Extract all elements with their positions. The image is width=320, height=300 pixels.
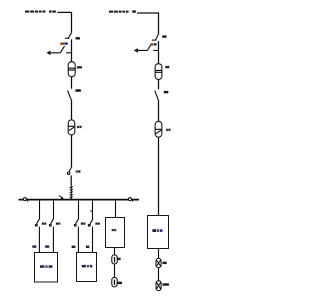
wire xyxy=(71,77,73,89)
capsule inner bar xyxy=(68,125,74,127)
label QL1 xyxy=(76,170,81,172)
label FU2 xyxy=(165,66,169,68)
label QS1 xyxy=(76,37,80,39)
wire xyxy=(114,248,116,255)
label (drop2 switch) xyxy=(56,223,60,225)
fuse F2 element bar xyxy=(114,280,116,286)
capsule inner bar (right) xyxy=(155,128,162,130)
arrester X2 cross xyxy=(157,282,161,288)
wire xyxy=(39,200,41,219)
label: right 10kV xyxy=(132,10,136,13)
ground symbol (right) arrow + bar xyxy=(136,48,138,52)
label (drop3 switch) xyxy=(81,223,85,225)
label X1 xyxy=(163,262,167,264)
label QS3 xyxy=(162,35,166,37)
load-break switch QL1 (left) blade with loop xyxy=(69,167,71,172)
wire xyxy=(158,100,160,121)
wire xyxy=(53,200,55,219)
capsule FU1 inner bars xyxy=(68,68,75,70)
wire: left feeder segment to fuse xyxy=(71,39,73,61)
wire xyxy=(52,227,54,253)
fuse F1 element bar xyxy=(114,257,116,263)
label (right box) xyxy=(152,229,162,232)
wire: left incoming top run and down-lead xyxy=(58,12,72,32)
wire xyxy=(71,135,73,167)
label XD1-2 xyxy=(82,265,93,268)
label cable tag A4 xyxy=(86,246,89,248)
arrester X1 cross xyxy=(157,260,161,266)
label (drop4 switch) xyxy=(95,223,99,225)
disconnector QS1 (left) contact tick xyxy=(65,37,70,39)
label cable tag A2 xyxy=(45,245,49,247)
wire: right incoming top run and down-lead xyxy=(137,13,159,34)
metering box xyxy=(106,218,125,248)
label X2 xyxy=(163,283,169,285)
label: left incoming source name xyxy=(25,11,46,13)
label (drop1 switch) xyxy=(42,223,46,225)
earthing switch branch (left feeder) wire xyxy=(50,52,72,54)
fuse/contact capsule FU1 (left) xyxy=(68,62,75,77)
label: right incoming source name xyxy=(109,11,129,13)
label earthing switch (left) xyxy=(60,42,67,44)
label XD1-1 xyxy=(40,265,52,268)
capsule FU2 inner bars xyxy=(155,70,162,72)
transformer box XD1-2 xyxy=(77,253,97,282)
capsule inner chevron (right) xyxy=(156,130,162,134)
label cable tag A3 xyxy=(72,246,76,248)
label (right capsule 2) xyxy=(166,129,170,131)
wire xyxy=(38,227,40,253)
earthing switch blade (right) xyxy=(147,44,151,51)
wire xyxy=(70,175,72,185)
current transformer coil (left feeder) xyxy=(70,186,72,200)
wire: long right feeder drop xyxy=(158,137,160,215)
wire xyxy=(114,264,116,277)
switch QL (drop3) blade with loop xyxy=(76,219,79,224)
disconnector QS4 (right) blade xyxy=(155,91,159,101)
label FU1 xyxy=(77,66,82,68)
wire xyxy=(158,80,160,90)
disconnector QS2 (left) blade xyxy=(68,91,72,101)
label F1 xyxy=(117,258,120,260)
label (metering box) xyxy=(112,229,117,231)
arrester capsule X1 xyxy=(156,258,161,267)
label: left 10kV xyxy=(49,10,56,12)
capsule inner chevron xyxy=(69,127,74,131)
switch QL (drop2) blade with loop xyxy=(51,219,54,224)
bus arrow marker xyxy=(59,196,62,198)
label (left capsule 2) xyxy=(77,126,82,128)
arrester capsule X2 xyxy=(156,281,161,291)
bus right end link symbol xyxy=(128,198,131,201)
fuse/contact capsule FU2 (right) xyxy=(155,64,162,80)
label cable tag A1 xyxy=(32,245,36,247)
label QS2 xyxy=(75,89,81,92)
label QS4 xyxy=(164,91,169,93)
wire xyxy=(158,268,160,281)
load switch capsule (left, bar+chevron) xyxy=(68,120,75,135)
load switch capsule (right, bar+chevron) xyxy=(155,121,162,137)
wire xyxy=(92,200,94,219)
bus left end link symbol xyxy=(23,198,26,201)
busbar xyxy=(19,199,140,201)
disconnector QS1 (left) blade xyxy=(68,33,71,38)
wire xyxy=(77,227,79,253)
tick on drop 4 wire xyxy=(90,210,92,212)
fuse capsule F1 xyxy=(112,255,117,264)
transformer box (right feeder) xyxy=(148,216,169,249)
fuse capsule F2 xyxy=(112,277,117,287)
switch QL (drop1) blade with loop xyxy=(37,219,40,224)
wire xyxy=(92,227,94,253)
wire xyxy=(158,248,160,258)
wire xyxy=(78,200,80,219)
wire xyxy=(71,100,73,120)
disconnector QS3 contact tick xyxy=(152,39,157,41)
wire xyxy=(115,200,117,217)
disconnector QS3 (right) blade xyxy=(156,34,159,40)
ground symbol (left) arrow + bar xyxy=(49,51,51,55)
label F2 xyxy=(118,282,122,284)
transformer box XD1-1 xyxy=(35,253,58,283)
label earthing switch (right) xyxy=(151,43,157,45)
earthing switch branch (right feeder) wire xyxy=(137,49,158,51)
switch QL (drop4) blade with loop xyxy=(90,219,93,224)
wire xyxy=(158,41,160,64)
earthing switch blade xyxy=(60,46,64,53)
